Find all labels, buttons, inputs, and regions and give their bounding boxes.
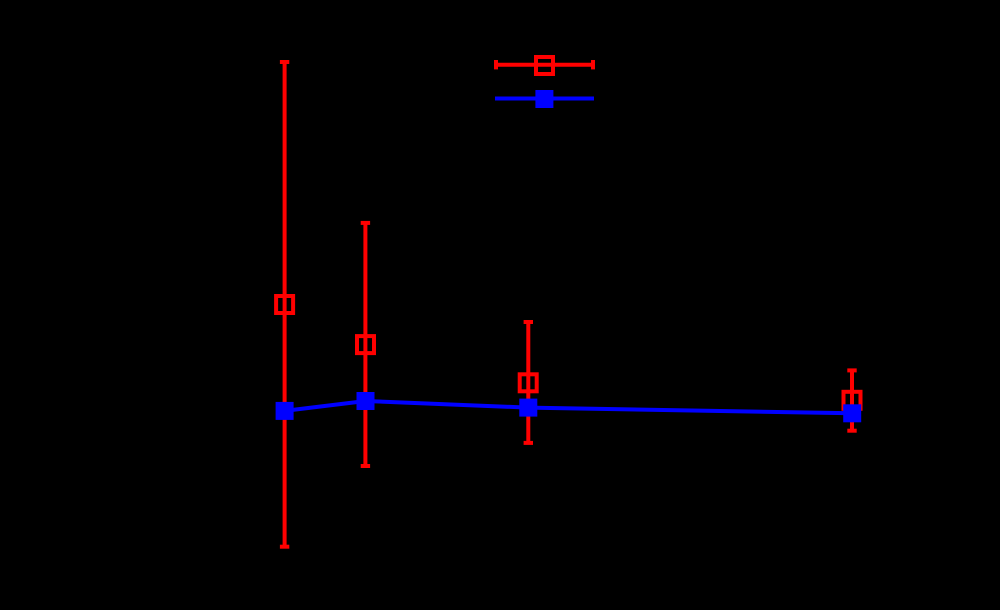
blue filled square marker 4	[843, 404, 861, 422]
legend red errorbar sample line	[496, 60, 593, 69]
red error bar 4 (x=852)	[847, 370, 856, 430]
blue filled square marker 1	[276, 402, 294, 420]
blue filled square marker 2	[357, 392, 375, 410]
red open square marker 3	[520, 374, 537, 391]
legend blue filled square marker	[535, 90, 553, 108]
blue polyline	[285, 401, 853, 413]
blue filled square marker 3	[519, 399, 537, 417]
red error bar 1 (x=284.6)	[280, 62, 289, 547]
red open square marker 4	[844, 392, 861, 409]
red open square marker 1	[276, 296, 293, 313]
legend blue line sample	[495, 97, 594, 101]
red open square marker 2	[357, 336, 374, 353]
red error bar 2 (x=365.4)	[361, 223, 370, 466]
legend red open square marker	[536, 57, 553, 74]
red error bar 3 (x=528.3)	[524, 322, 533, 443]
